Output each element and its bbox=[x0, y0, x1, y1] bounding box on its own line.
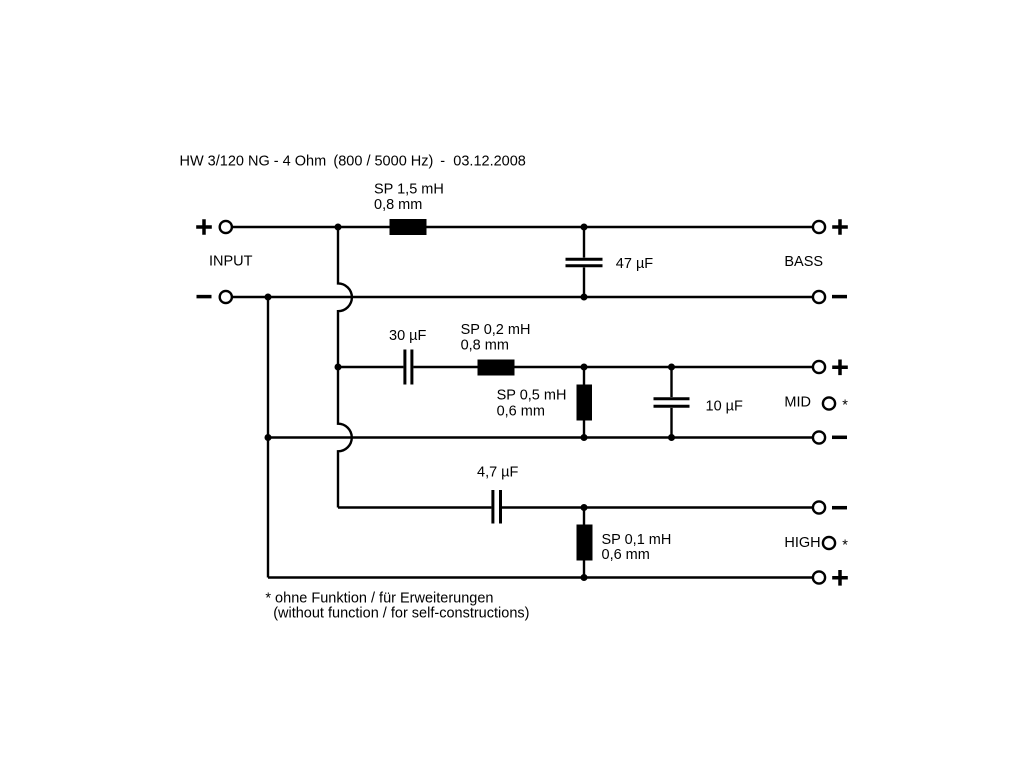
junction SP 0,1 top bbox=[581, 504, 588, 511]
svg-text:BASS: BASS bbox=[784, 254, 823, 270]
terminal MID aux bbox=[823, 397, 835, 409]
minus sign MID bbox=[832, 436, 847, 440]
svg-text:(without function / for self-c: (without function / for self-constructio… bbox=[273, 605, 529, 621]
wire MID minus rail bbox=[268, 436, 813, 438]
svg-text:0,8 mm: 0,8 mm bbox=[461, 337, 509, 353]
inductor SP 0,1 mH bbox=[577, 508, 593, 578]
svg-text:SP 0,5 mH: SP 0,5 mH bbox=[497, 388, 567, 404]
junction MID branch top bbox=[335, 364, 342, 371]
plus sign BASS bbox=[832, 219, 848, 235]
svg-text:HW 3/120 NG - 4 Ohm: HW 3/120 NG - 4 Ohm bbox=[180, 154, 327, 170]
wire HIGH minus rail bbox=[338, 506, 813, 508]
svg-text:MID: MID bbox=[784, 394, 811, 410]
svg-text:4,7 µF: 4,7 µF bbox=[477, 465, 519, 481]
terminal HIGH aux bbox=[823, 537, 835, 549]
svg-text:* ohne Funktion / für Erweiter: * ohne Funktion / für Erweiterungen bbox=[265, 591, 493, 607]
terminal BASS plus bbox=[813, 221, 825, 233]
svg-text:SP 1,5 mH: SP 1,5 mH bbox=[374, 182, 444, 198]
plus sign MID bbox=[832, 360, 848, 376]
terminal HIGH plus bbox=[813, 571, 825, 583]
svg-text:0,6 mm: 0,6 mm bbox=[602, 547, 650, 563]
wire BASS plus rail bbox=[233, 226, 813, 228]
svg-text:-: - bbox=[440, 154, 445, 170]
terminal BASS minus bbox=[813, 291, 825, 303]
terminal MID plus bbox=[813, 361, 825, 373]
value label SP 0,2 mH bbox=[461, 322, 531, 353]
capacitor 30 uF bbox=[405, 350, 412, 385]
terminal input minus bbox=[220, 291, 232, 303]
svg-text:47 µF: 47 µF bbox=[616, 256, 654, 272]
wire minus rail bbox=[233, 296, 813, 298]
plus sign HIGH bbox=[832, 570, 848, 586]
inductor SP 0,5 mH bbox=[577, 367, 593, 438]
wire vertical bus from minus input bbox=[267, 297, 269, 578]
svg-text:HIGH: HIGH bbox=[784, 535, 820, 551]
junction SP 0,5 top bbox=[581, 364, 588, 371]
junction 47uF bottom bbox=[581, 294, 588, 301]
minus sign input bbox=[197, 295, 212, 299]
title text bbox=[180, 154, 526, 170]
value label SP 0,1 mH bbox=[602, 532, 672, 563]
capacitor 47 uF bbox=[566, 227, 603, 297]
junction 10uF bottom bbox=[668, 434, 675, 441]
terminal MID minus bbox=[813, 431, 825, 443]
svg-text:0,6 mm: 0,6 mm bbox=[497, 403, 545, 419]
value label SP 1,5 mH bbox=[374, 182, 444, 214]
svg-text:INPUT: INPUT bbox=[209, 253, 253, 269]
svg-text:0,8 mm: 0,8 mm bbox=[374, 197, 422, 213]
svg-text:(800 / 5000 Hz): (800 / 5000 Hz) bbox=[333, 154, 433, 170]
junction 10uF top bbox=[668, 364, 675, 371]
junction at plus input bus bbox=[335, 224, 342, 231]
svg-text:SP 0,1 mH: SP 0,1 mH bbox=[602, 532, 672, 548]
wire MID plus rail bbox=[338, 366, 813, 368]
junction SP 0,1 bottom bbox=[581, 574, 588, 581]
junction at minus input bus bbox=[265, 294, 272, 301]
inductor SP 0,2 mH bbox=[478, 360, 515, 376]
inductor SP 1,5 mH bbox=[390, 219, 427, 235]
terminal input plus bbox=[220, 221, 232, 233]
wire vertical bus from plus input with crossover hops bbox=[338, 227, 352, 508]
wire HIGH plus rail bbox=[268, 576, 813, 578]
svg-text:*: * bbox=[842, 538, 848, 554]
junction MID minus left bbox=[265, 434, 272, 441]
junction SP 0,5 bottom bbox=[581, 434, 588, 441]
svg-text:03.12.2008: 03.12.2008 bbox=[453, 154, 526, 170]
capacitor 10 uF bbox=[654, 367, 690, 438]
minus sign BASS bbox=[832, 295, 847, 299]
junction 47uF top bbox=[581, 224, 588, 231]
svg-text:*: * bbox=[842, 398, 848, 414]
svg-text:SP 0,2 mH: SP 0,2 mH bbox=[461, 322, 531, 338]
minus sign HIGH bbox=[832, 506, 847, 510]
svg-text:10 µF: 10 µF bbox=[706, 398, 744, 414]
svg-text:30 µF: 30 µF bbox=[389, 328, 427, 344]
capacitor 4,7 uF bbox=[493, 490, 501, 524]
plus sign input bbox=[196, 219, 212, 235]
terminal HIGH minus bbox=[813, 501, 825, 513]
value label SP 0,5 mH bbox=[497, 388, 567, 420]
